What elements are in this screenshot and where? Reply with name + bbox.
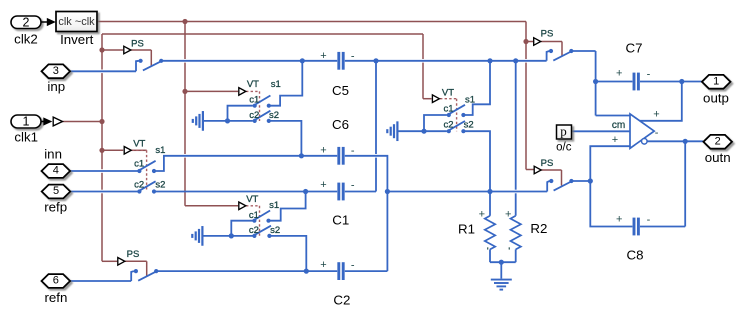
wire bank D s2 to C2 left: [269, 236, 306, 271]
svg-text:c2: c2: [249, 225, 259, 236]
svg-text:o/c: o/c: [556, 142, 572, 154]
node bank D ground junction: [229, 233, 234, 238]
label PS (refn switch): [127, 249, 140, 260]
svg-text:c2: c2: [443, 120, 453, 131]
wire to op-amp noninverting input: [596, 115, 630, 117]
svg-text:outp: outp: [703, 91, 729, 106]
switch VT3b (bank D c2-s2): [252, 226, 271, 238]
svg-text:C5: C5: [332, 83, 349, 98]
label outn: [705, 150, 731, 165]
svg-text:c1: c1: [134, 158, 144, 169]
wire C8 right to outn: [640, 141, 685, 226]
capacitor C6: [320, 145, 355, 165]
capacitor C5: [320, 50, 355, 70]
arrow port1 PS converter: [41, 117, 63, 126]
port 1 (clk1 input): [11, 115, 41, 129]
PS converter triangle (outp switch): [534, 38, 541, 46]
labels bank E pins: [443, 95, 475, 131]
port 2 (clk2 input): [11, 15, 41, 29]
svg-text:C1: C1: [332, 213, 349, 228]
svg-text:6: 6: [53, 275, 59, 287]
svg-text:PS: PS: [541, 158, 554, 169]
svg-text:-: -: [647, 69, 651, 81]
junction dot (clk1 net, inp switch tap): [99, 47, 104, 52]
resistor R2: [505, 208, 521, 262]
svg-text:VT: VT: [246, 194, 258, 205]
port 3 (inp): [42, 64, 71, 78]
labels bank D pins: [249, 200, 280, 236]
svg-text:PS: PS: [131, 38, 144, 49]
switch VT3a (bank D c1-s1): [252, 211, 270, 223]
wire o/c to op-amp cm: [572, 130, 631, 132]
clk2/Invert PS control net (wires): [97, 22, 562, 206]
block p (o/c): [557, 123, 572, 139]
switch VT2b (bank B c2-s2): [137, 181, 156, 193]
port 1 out (outp): [702, 75, 731, 89]
label VT (bank E): [442, 87, 454, 98]
wire inp to switch: [70, 61, 139, 72]
svg-text:2: 2: [23, 15, 30, 29]
node outn junction: [683, 139, 688, 144]
node top row junction bankE s1: [487, 58, 492, 63]
switch PS2 (outp feedback switch): [549, 49, 574, 61]
label R1: [458, 221, 475, 236]
label refn: [44, 290, 67, 305]
wire bank E s2 to outn row: [463, 131, 490, 191]
label C8: [627, 248, 644, 263]
wire n1p bus (C5/C1 right plates): [375, 61, 377, 192]
junction dot (clk1 net, port tap): [99, 119, 104, 124]
svg-text:PS: PS: [127, 249, 140, 260]
wire switch to C7 left node: [571, 51, 595, 116]
wire bank D c1 feed: [231, 221, 252, 236]
svg-text:+: +: [653, 109, 659, 121]
svg-text:+: +: [505, 208, 511, 220]
svg-text:s1: s1: [465, 95, 475, 106]
svg-text:c1: c1: [249, 210, 259, 221]
label Invert: [60, 32, 94, 47]
port 2 out (outn): [703, 135, 732, 149]
svg-text:p: p: [560, 123, 567, 138]
svg-text:c2: c2: [134, 180, 144, 191]
wire C2 row: [156, 270, 387, 272]
svg-text:+: +: [320, 259, 326, 271]
label inp: [47, 79, 65, 94]
svg-text:': ': [487, 246, 489, 256]
label C6: [332, 117, 349, 132]
svg-text:-: -: [351, 179, 355, 191]
svg-text:s2: s2: [155, 180, 165, 191]
svg-text:c2: c2: [249, 110, 259, 121]
wire bank A s2 to C6 left: [269, 121, 302, 156]
wire bank E s1 to top row: [463, 61, 490, 115]
wire R2 top lead: [515, 61, 517, 216]
node bank A ground junction: [225, 118, 230, 123]
PS converter triangle (refn switch): [118, 258, 125, 266]
switch VT4b (bank E c2-s2): [447, 121, 466, 133]
svg-text:cm: cm: [612, 120, 625, 131]
wire top row (C5 input node): [161, 60, 546, 62]
wire bank B s1 to C6 row: [154, 156, 337, 171]
svg-text:clk1: clk1: [14, 129, 38, 144]
svg-text:1: 1: [23, 115, 30, 129]
svg-text:clk ~clk: clk ~clk: [58, 16, 95, 28]
wire bank D s1 to C1 left: [269, 192, 306, 221]
svg-text:-: -: [351, 50, 355, 62]
op-amp output bubble: [642, 139, 648, 145]
svg-text:s2: s2: [270, 225, 280, 236]
node n1n junction: [385, 189, 390, 194]
svg-text:refp: refp: [44, 199, 67, 214]
svg-text:2: 2: [715, 135, 721, 147]
label VT (bank A): [247, 79, 259, 90]
capacitor C7: [616, 68, 651, 91]
node bank E ground junction: [421, 129, 426, 134]
label R2: [530, 221, 547, 236]
svg-text:+: +: [479, 208, 485, 220]
svg-text:outn: outn: [705, 150, 731, 165]
svg-text:VT: VT: [133, 139, 145, 150]
label VT (bank D): [246, 194, 258, 205]
svg-text:-: -: [351, 145, 355, 157]
node C7 left junction: [593, 79, 598, 84]
arrow port2 to Invert: [41, 18, 56, 26]
svg-text:+: +: [612, 134, 618, 146]
label PS (outn switch): [541, 158, 554, 169]
VT triangle (bank D): [239, 202, 246, 210]
label C1: [332, 213, 349, 228]
svg-text:Invert: Invert: [60, 32, 94, 47]
svg-text:+: +: [320, 145, 326, 157]
wire C7 row: [596, 81, 702, 83]
switch VT4a (bank E c1-s1): [447, 105, 466, 117]
node C1 left junction: [303, 189, 308, 194]
node C2 left junction: [304, 269, 309, 274]
ground (bank E): [387, 121, 422, 141]
ground (bank D): [192, 226, 229, 246]
wire outn row to switch: [547, 181, 549, 192]
svg-text:VT: VT: [247, 79, 259, 90]
svg-text:VT: VT: [442, 87, 454, 98]
svg-text:1: 1: [713, 75, 719, 87]
node C6 left junction: [299, 153, 304, 158]
label inn: [44, 146, 62, 161]
ground (bank A): [193, 111, 226, 131]
junction dot (Invert net, bank A tap): [182, 89, 187, 94]
ground (R1/R2 reference): [491, 262, 512, 289]
svg-text:clk2: clk2: [14, 31, 38, 46]
wire refp to bank B c2: [71, 191, 138, 193]
label C7: [626, 41, 643, 56]
port 5 (refp): [42, 185, 71, 199]
junction dot (Invert net, x185): [182, 19, 187, 24]
wire bank A c1 feed: [228, 106, 253, 121]
svg-text:s2: s2: [269, 110, 279, 121]
wire R1-R2 bottom join: [490, 261, 516, 263]
svg-text:+: +: [616, 213, 622, 225]
label PS (outp switch): [541, 29, 554, 40]
capacitor C8: [616, 213, 651, 235]
op-amp U1 (fully differential): [612, 109, 660, 149]
wire C6 right to n1n bus: [345, 156, 388, 271]
wire switch to outn node: [571, 180, 590, 182]
label clk1: [14, 129, 38, 144]
wire refn to switch: [71, 271, 134, 281]
capacitor C2: [320, 259, 355, 280]
svg-text:+: +: [616, 68, 622, 80]
labels bank B pins: [134, 145, 165, 190]
wire top row to outp switch: [547, 51, 550, 61]
junction dot (Invert net, x526): [523, 39, 528, 44]
switch PS1 (inp sampling switch): [139, 59, 164, 71]
VT dashed control links: [132, 91, 457, 236]
label o/c: [556, 142, 572, 154]
svg-text:+: +: [320, 50, 326, 62]
svg-text:R2: R2: [530, 221, 547, 236]
label refp: [44, 199, 67, 214]
svg-text:+: +: [320, 179, 326, 191]
svg-text:c1: c1: [249, 95, 259, 106]
node R bottom junction: [499, 260, 504, 265]
switch VT1a (bank A c1-s1): [253, 96, 271, 108]
svg-text:-: -: [351, 259, 355, 271]
junction dot (clk1 net, bank B tap): [99, 148, 104, 153]
node top row junction R2: [513, 58, 518, 63]
PS converter triangle (inp switch): [124, 46, 131, 54]
wire outn sense row: [387, 191, 547, 193]
svg-text:refn: refn: [44, 290, 67, 305]
node outp junction: [679, 79, 684, 84]
block Invert (clk ~clk): [56, 12, 97, 32]
svg-text:-: -: [647, 214, 651, 226]
svg-text:C8: C8: [627, 248, 644, 263]
wire to op-amp inverting input: [590, 146, 630, 181]
wire to C8 left: [590, 181, 632, 227]
PS converter triangle (outn switch): [534, 166, 541, 174]
switch VT1b (bank A c2-s2): [253, 111, 271, 123]
switch PS4 (refn switch): [134, 269, 159, 281]
label C2: [333, 293, 350, 308]
svg-text:R1: R1: [458, 221, 475, 236]
svg-text:5: 5: [53, 185, 59, 197]
wire bank A s1 to C5 left: [269, 61, 303, 106]
svg-text:c1: c1: [443, 104, 453, 115]
switch VT2a (bank B c1-s1): [137, 161, 156, 173]
svg-text:': ': [508, 246, 510, 256]
svg-text:s1: s1: [269, 200, 279, 211]
wire bank D c2 row: [229, 235, 253, 237]
capacitor C1: [320, 179, 355, 200]
svg-text:C7: C7: [626, 41, 643, 56]
label clk2: [14, 31, 38, 46]
clk1 PS control net (wires): [63, 34, 432, 276]
wire op-amp + output: [640, 82, 682, 121]
label VT (bank B): [133, 139, 145, 150]
label PS (inp switch): [131, 38, 144, 49]
resistor R1: [479, 192, 496, 263]
node outn switch junction: [588, 178, 593, 183]
wire bank A c2 row: [226, 120, 253, 122]
svg-text:s1: s1: [271, 79, 281, 90]
svg-text:C2: C2: [333, 293, 350, 308]
wire C1 right to n1p bus: [345, 191, 376, 193]
svg-text:4: 4: [53, 165, 59, 177]
svg-text:inp: inp: [47, 79, 65, 94]
svg-text:s2: s2: [464, 120, 474, 131]
wire crossing gaps on PS lines: [100, 59, 528, 193]
VT triangle (bank B): [124, 147, 131, 155]
VT triangle (bank A): [239, 88, 246, 96]
switch PS3 (outn feedback switch): [549, 179, 573, 191]
node top row junction at n1p: [373, 58, 378, 63]
svg-text:s1: s1: [155, 145, 165, 156]
label C5: [332, 83, 349, 98]
svg-text:-: -: [655, 127, 659, 139]
svg-text:inn: inn: [44, 146, 62, 161]
node R1 top junction: [487, 189, 492, 194]
node C5 left junction: [300, 58, 305, 63]
wire bank E c2 row: [422, 130, 447, 132]
label outp: [703, 91, 729, 106]
labels bank A pins: [249, 79, 281, 121]
svg-text:3: 3: [53, 65, 59, 77]
wire inn to bank B c1: [71, 170, 138, 172]
wire bank B s2 to C1 row: [154, 191, 337, 193]
wire op-amp - output: [647, 140, 703, 142]
svg-text:PS: PS: [541, 29, 554, 40]
port 6 (refn): [42, 274, 71, 288]
wire bank E c1 feed: [424, 115, 447, 131]
svg-text:C6: C6: [332, 117, 349, 132]
VT triangle (bank E): [432, 95, 439, 103]
wire crossing gaps on blue buses: [374, 154, 517, 193]
port 4 (inn): [42, 164, 71, 178]
